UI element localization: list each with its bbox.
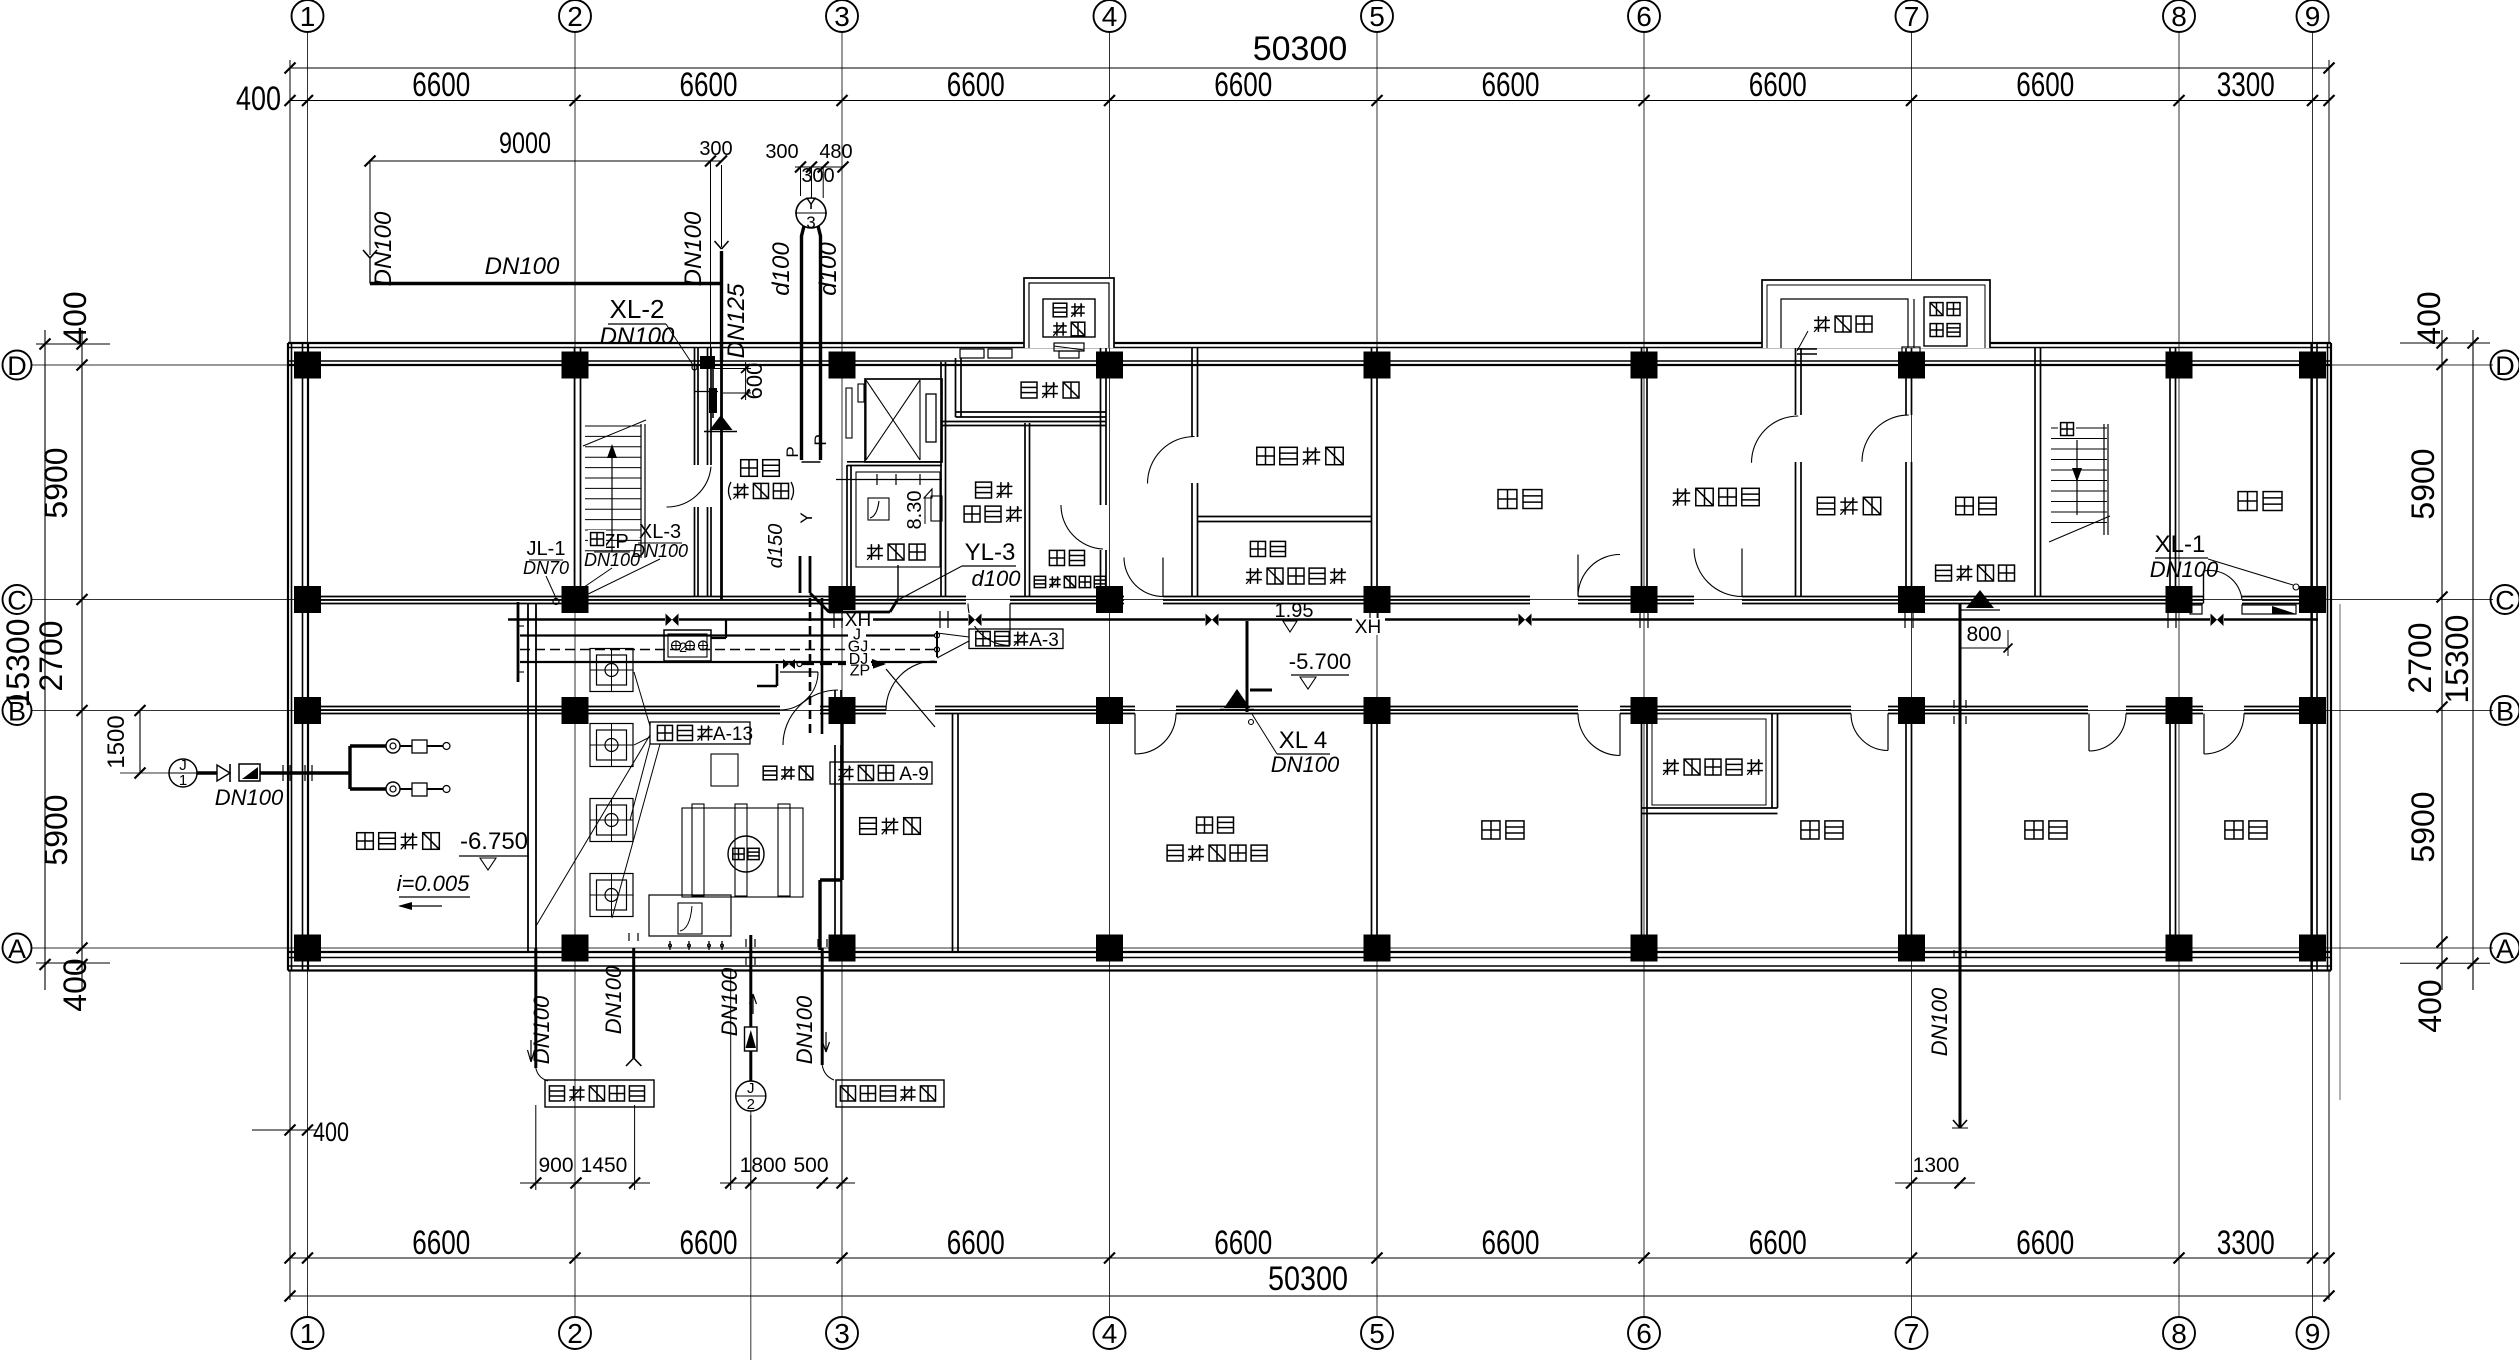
dimension right 15300 line [2439,330,2479,990]
svg-text:15300: 15300 [0,619,36,708]
svg-text:400: 400 [2411,291,2447,344]
svg-text:A: A [2496,934,2514,964]
grid bubbles left D C B A [3,351,32,965]
svg-text:DN125: DN125 [723,283,750,358]
wall pump-room right with door [835,690,841,952]
svg-text:5900: 5900 [38,447,74,518]
labels P P Y d150 [765,434,830,568]
label box see-water-plan A-9 [830,762,932,785]
svg-text:6600: 6600 [947,1224,1005,1262]
svg-text:3300: 3300 [2217,66,2275,104]
svg-text:6600: 6600 [1482,66,1540,104]
svg-text:500: 500 [793,1154,828,1177]
svg-text:7: 7 [1904,1318,1920,1349]
svg-text:800: 800 [1966,623,2001,646]
door B-wall storeroom 2 [1578,714,1620,756]
corridor pipe ZP with valve [757,659,886,686]
level mark -5.700 [1289,649,1351,689]
svg-text:1500: 1500 [103,715,130,768]
grid bubbles top 1-9 [292,0,2329,32]
svg-text:XL-3: XL-3 [639,521,681,543]
riser group at C wall near grid 2 [518,599,583,683]
svg-text:300: 300 [765,141,798,163]
room label simple washroom [964,482,1022,522]
svg-text:d150: d150 [765,524,787,569]
svg-text:D: D [7,351,27,381]
wall grid-8 upper [2170,347,2176,597]
wall stair hall left (grid 2) [575,347,581,597]
door B-wall storeroom 5 [2204,714,2244,755]
wall grid-8 lower [2170,714,2176,952]
label DN100 at pool inlet [215,785,284,810]
wall front-room-2 right [2035,347,2041,597]
svg-text:2: 2 [567,1318,583,1349]
door front-room-1 [667,467,712,507]
exterior wall bottom (axis A) [288,952,2331,971]
J DJ connector and leaders to A-3 box [935,631,970,658]
svg-text:XL-1: XL-1 [2155,531,2206,558]
dimension 1500 at fire pool inlet [103,705,146,779]
corridor pipe J [520,634,935,636]
thin vertical reference line right of building [2339,604,2341,1100]
label box see-water-plan A-13 with leaders [536,672,753,926]
level mark -6.750 and slope i=0.005 [397,828,529,910]
svg-text:6: 6 [1636,1,1652,32]
svg-text:-5.700: -5.700 [1289,649,1351,674]
labels JL-1 DN70 ZP DN100 XL-3 DN100 [523,521,688,598]
svg-text:7: 7 [1904,1,1920,32]
dimension 300 480 300 at Y3 [765,141,852,198]
room label storeroom 3 [1801,821,1843,839]
wall grid-7 lower [1906,714,1912,952]
exterior wall top (axis D) [288,343,2331,365]
svg-text:YL-3: YL-3 [965,539,1016,566]
svg-text:300: 300 [699,138,732,160]
equipment box bottom of pump room [649,895,731,950]
svg-text:DN100: DN100 [1927,987,1952,1056]
svg-text:C: C [7,586,27,616]
svg-text:A-9: A-9 [899,764,929,785]
labels DN100 rotated top-left [370,211,750,358]
dimension top 50300 line [285,30,2335,74]
svg-text:1: 1 [179,772,187,789]
svg-text:DN100: DN100 [601,965,626,1034]
label YL-3 d100 [898,539,1021,600]
wall control-room right [953,714,959,952]
dimension left 400 5900 2700 5900 400 chain [33,291,110,1011]
svg-text:i=0.005: i=0.005 [397,871,471,896]
dimension left 15300 line [0,330,51,990]
pipe DN100 bottom 2 with Y end [601,933,641,1066]
svg-text:6600: 6600 [1749,66,1807,104]
svg-text:B: B [2496,697,2514,727]
dimension 9000 and 300 top [365,127,733,356]
wall washroom left (x941) [941,362,946,597]
svg-text:5900: 5900 [2405,448,2441,519]
door C-wall storeroom 5-6 [1578,555,1620,597]
room label front room 2 and sealed passage [1936,497,2015,610]
room label diffusion room 1 [1021,382,1079,398]
corridor pipe DJ [520,661,937,663]
svg-text:400: 400 [313,1117,349,1147]
svg-text:400: 400 [57,958,93,1011]
svg-text:DN100: DN100 [485,253,560,280]
wall grid-7 upper with door [1906,347,1912,597]
wall exhaust-fan-room bottom [1197,517,1372,522]
svg-text:5900: 5900 [38,794,74,865]
svg-text:5900: 5900 [2405,791,2441,862]
pipe XL-4 riser at corridor [1220,621,1272,725]
svg-text:Y: Y [805,194,816,213]
XL-2 riser node box [700,356,715,369]
svg-text:DN100: DN100 [680,211,707,286]
svg-text:480: 480 [819,141,852,163]
svg-text:6600: 6600 [1482,1224,1540,1262]
elevator shaft with X cross [846,379,942,462]
exterior wall left (axis 1) [288,343,308,971]
svg-text:15300: 15300 [2439,615,2475,704]
svg-text:900: 900 [538,1154,573,1177]
svg-text:4: 4 [1102,1,1118,32]
vent risers d100 pair [802,226,821,462]
wall NBC-duty-room right [1772,714,1778,808]
svg-text:6600: 6600 [2016,1224,2074,1262]
dimension bottom-left 400 [252,1117,349,1147]
svg-text:600: 600 [742,363,767,400]
exterior wall right (axis 9) [2312,343,2332,971]
level mark 1.95 [1275,600,1314,632]
svg-text:3: 3 [834,1318,850,1349]
svg-text:DN100: DN100 [1271,752,1340,777]
svg-text:400: 400 [236,80,281,118]
fire pool inlet with meter circle J/1 [120,739,450,796]
fire hydrant main XH along corridor [508,611,2318,628]
wall washroom top [941,422,1106,426]
svg-text:DN100: DN100 [600,323,675,350]
wall front-room(elev) left with door opening [695,347,712,597]
dimension right 400 5900 2700 5900 400 chain [2400,291,2490,1032]
svg-text:2: 2 [747,1096,755,1113]
door C-wall washroom [968,604,1010,646]
sump pit room below elevator [847,462,942,597]
water tank assembly [682,754,803,897]
door C-wall supply-fan-room [1694,549,1742,597]
svg-text:50300: 50300 [1268,1260,1348,1298]
svg-text:6600: 6600 [2016,66,2074,104]
dimension bottom 6600 chain [285,971,2335,1301]
wall diffusion-room-1 left and bottom [956,358,1107,417]
label XL-2 DN100 [600,294,697,370]
pipe DN100 bottom 3 riser with check valve and J/2 [717,935,766,1360]
pipe DN100 bottom 4 with arrow to school building [792,939,834,1080]
interior wall along axis B [308,707,2312,714]
svg-text:2: 2 [679,639,687,655]
svg-text:DN100: DN100 [792,995,817,1064]
svg-text:1300: 1300 [1913,1154,1960,1177]
vent riser circle Y/3 [795,194,827,232]
pipe DN100 top horizontal run [363,250,722,284]
sprinkler manifold box in pump room [664,620,726,661]
svg-text:1: 1 [300,1318,316,1349]
dimension bottom 1800 500 [720,971,855,1191]
wall grid-6 lower [1642,714,1648,952]
room label front room (elevator hall) [729,460,794,500]
svg-text:DN70: DN70 [523,558,569,578]
svg-text:DN100: DN100 [370,211,397,286]
wall NBC-duty-room bottom [1642,808,1778,814]
svg-text:1.95: 1.95 [1275,600,1314,622]
svg-text:8: 8 [2171,1,2187,32]
svg-text:XL-2: XL-2 [610,294,665,324]
door mens WC in grid-4 wall [1061,505,1103,549]
door C-wall storeroom 8-9 with threshold and XL-1 riser [2190,570,2296,614]
svg-text:1450: 1450 [581,1154,628,1177]
svg-text:DN100: DN100 [2150,557,2219,582]
interior wall along axis C [308,597,2312,604]
svg-text:50300: 50300 [1253,30,1348,68]
svg-text:P: P [783,446,802,457]
room label supply fan room [1673,488,1759,505]
svg-text:5: 5 [1369,1,1385,32]
vent slots in wall near diffusion room 1 [960,349,1012,358]
label XH second [1352,617,1385,638]
pump room risers from corridor [810,598,842,950]
exhaust shaft block above wall (paifengshujing) [1024,278,1114,358]
pipe DN100 bottom 1 with arrow to school building [528,948,555,1081]
svg-text:6600: 6600 [680,66,738,104]
svg-text:1: 1 [300,1,316,32]
svg-text:300: 300 [801,165,834,187]
label box to school building 1 [545,1080,654,1107]
svg-text:6600: 6600 [412,1224,470,1262]
svg-text:XH: XH [1355,617,1381,638]
svg-text:XL 4: XL 4 [1279,727,1327,754]
stair 2 (near grid 8) [2049,424,2110,542]
YL-3 drain run and sump connection [800,474,942,612]
dimension top 6600 chain [236,60,2335,343]
svg-text:9: 9 [2305,1318,2321,1349]
door B-wall wartime tank room [1135,714,1176,755]
grid bubbles right D C B A [2491,351,2519,965]
room label fire pool [357,833,440,850]
svg-text:2700: 2700 [33,620,69,691]
corridor pipe GJ dashed [520,649,937,651]
wall grid-6 upper [1642,347,1648,597]
room label NBC duty room [1663,759,1763,775]
svg-text:2: 2 [567,1,583,32]
room label storeroom 2 [1482,821,1524,839]
XL-2 branch valve and triangle [695,368,737,432]
labels XH J GJ DJ ZP [843,610,873,680]
grid bubbles bottom 1-9 [292,1317,2329,1349]
room label pump room [763,766,813,780]
svg-text:8: 8 [2171,1318,2187,1349]
svg-text:6600: 6600 [680,1224,738,1262]
room label filter room [1817,497,1880,514]
svg-text:9: 9 [2305,1,2321,32]
label box see-water-plan A-3 [969,629,1063,651]
svg-text:6600: 6600 [412,66,470,104]
svg-text:8.30: 8.30 [904,491,926,530]
room label sump pit [867,544,925,560]
room label storeroom 5 [2225,821,2267,839]
svg-text:d100: d100 [972,566,1022,591]
diffusion room 2 block above wall with air intake shaft [1762,280,1990,361]
wall exhaust-fan-room left with door [1192,347,1198,597]
svg-text:C: C [2495,586,2515,616]
door pump-to-control room [783,690,838,745]
room label storeroom top (5-6) [1498,490,1542,509]
svg-text:A-13: A-13 [713,724,753,745]
svg-text:400: 400 [2412,979,2448,1032]
svg-text:DN100: DN100 [717,967,742,1036]
NBC-duty-room inner lining [1652,719,1766,805]
svg-text:DN100: DN100 [632,541,688,561]
svg-text:6600: 6600 [1214,1224,1272,1262]
wall grid-5 lower [1372,714,1378,952]
svg-text:A: A [8,934,26,964]
svg-text:400: 400 [57,291,93,344]
svg-text:5: 5 [1369,1318,1385,1349]
door C-wall small room 4 [1124,558,1163,597]
columns at all grid intersections [294,352,2326,962]
svg-text:6600: 6600 [947,66,1005,104]
svg-text:2700: 2700 [2402,622,2438,693]
wall supply-fan/filter divider [1796,347,1802,597]
door B-wall pump room [780,672,818,710]
svg-text:6600: 6600 [1214,66,1272,104]
door B-wall storeroom 4 [2089,714,2126,752]
dimension 800 at right drop [1960,623,2013,656]
door B-wall storeroom 3 [1851,714,1888,751]
svg-text:6: 6 [1636,1318,1652,1349]
label 8.30 rotated [904,491,926,530]
svg-text:DN100: DN100 [215,785,284,810]
svg-text:P: P [811,434,830,445]
svg-text:3: 3 [834,1,850,32]
svg-text:Y: Y [797,512,816,523]
svg-text:3300: 3300 [2217,1224,2275,1262]
room label exhaust fan room [1257,447,1343,464]
svg-text:6600: 6600 [1749,1224,1807,1262]
room label storeroom / wartime mens WC [1034,550,1105,587]
wall wartime-mens-WC left [1025,423,1030,597]
svg-text:4: 4 [1102,1318,1118,1349]
door filter-room to front-room-2 [1862,415,1909,462]
svg-text:d100: d100 [768,242,795,296]
svg-text:1800: 1800 [740,1154,787,1177]
wall grid-4 (x1100) with door [1101,347,1107,597]
label box to school building 2 [836,1080,944,1107]
dimension bottom 1300 [1895,1154,1975,1189]
dimension bottom 900 1450 [520,1105,650,1190]
door B-wall control room [886,661,935,727]
svg-text:9000: 9000 [499,127,551,160]
svg-text:3: 3 [806,213,815,232]
dimension 600 at XL-2 [714,362,767,400]
room label storeroom 4 [2025,821,2067,839]
pipe DN100 right drop at x1960 [1927,604,1968,1128]
stair 1 (near grid 2) [583,420,646,558]
svg-text:JL-1: JL-1 [527,538,566,560]
svg-text:-6.750: -6.750 [460,828,528,855]
floor drains in pump room [590,649,633,917]
room label control room [860,818,921,835]
svg-text:ZP: ZP [850,663,870,680]
grid axis horizontal lines A-D [31,365,2493,948]
room label storeroom wartime tank room [1167,817,1267,861]
svg-text:J: J [747,1080,755,1097]
label XL-1 DN100 with leader [2150,531,2299,590]
wall fire-pool right (lower band) [528,604,536,952]
svg-text:d100: d100 [815,242,842,296]
label XL 4 DN100 [1252,714,1340,777]
room label storeroom / wartime womens WC [1246,541,1346,584]
room label storeroom top right [2238,492,2282,511]
pipe DN125 riser to XL-2 [715,165,729,599]
stair labels up [588,420,2076,548]
grid axis vertical lines 1-9 [308,32,2313,1317]
svg-text:DN100: DN100 [529,995,554,1064]
svg-text:A-3: A-3 [1029,630,1059,651]
door filter-room left [1752,416,1799,463]
label d100 d100 rotated [768,242,842,296]
dimension bottom 50300 line [285,1260,2335,1302]
svg-text:D: D [2495,351,2515,381]
wall grid-5 upper [1372,347,1378,597]
door exhaust-fan-room [1148,437,1195,484]
